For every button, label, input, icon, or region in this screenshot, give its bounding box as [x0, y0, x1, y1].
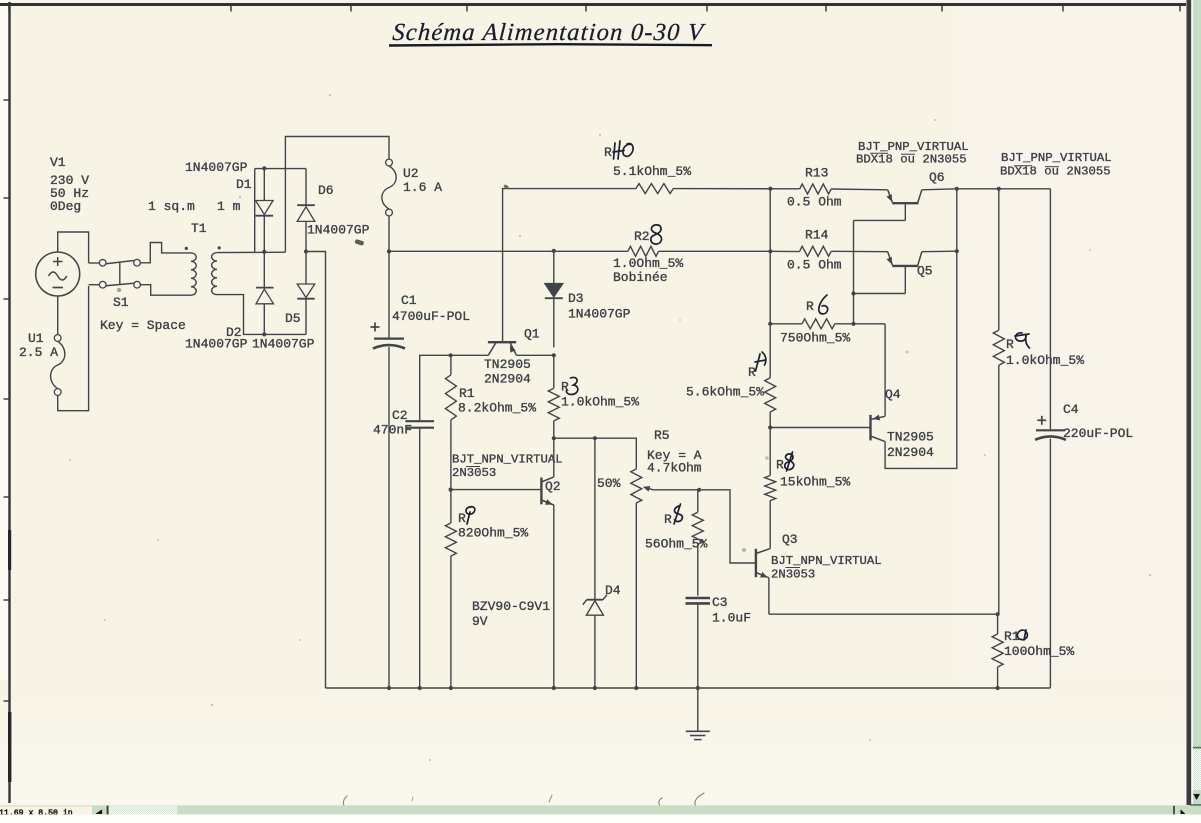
scrollbar corner dark line — [1190, 804, 1201, 805]
svg-text:1N4007GP: 1N4007GP — [307, 223, 370, 238]
diode D2 — [256, 287, 274, 289]
AC source V1 — [36, 252, 80, 296]
svg-text:TN2905: TN2905 — [484, 357, 531, 372]
handwritten 0 on R10 — [1017, 630, 1027, 640]
node rail C1 — [387, 686, 391, 690]
svg-text:750Ohm_5%: 750Ohm_5% — [780, 331, 850, 346]
svg-text:U1: U1 — [28, 331, 44, 346]
handwritten mark on R8 — [785, 452, 794, 471]
wire secondary riser to diode top rail — [254, 169, 256, 253]
svg-text:1.0kOhm_5%: 1.0kOhm_5% — [1006, 353, 1084, 368]
svg-text:470nF: 470nF — [373, 423, 412, 438]
wire output rail to C4 — [1049, 189, 1051, 429]
svg-text:Q4: Q4 — [885, 387, 901, 402]
svg-text:R: R — [604, 145, 612, 160]
resistor R2 820Ohm — [450, 490, 452, 523]
resistor R1 8.2kOhm — [450, 355, 452, 375]
svg-text:D4: D4 — [605, 583, 621, 598]
right page edge dark strip — [1187, 0, 1192, 805]
svg-text:C2: C2 — [392, 408, 408, 423]
svg-text:820Ohm_5%: 820Ohm_5% — [458, 526, 528, 541]
svg-text:0Deg: 0Deg — [50, 199, 81, 214]
transistor Q4 TN2905 — [869, 415, 871, 441]
svg-text:2N3053: 2N3053 — [452, 466, 496, 480]
node rail D4 — [593, 686, 597, 690]
vertical scrollbar — [1193, 0, 1201, 747]
svg-text:R: R — [776, 458, 784, 473]
svg-text:BZV90-C9V1: BZV90-C9V1 — [472, 599, 550, 614]
svg-text:2N3053: 2N3053 — [771, 568, 815, 582]
node Q1 emitter D3 — [552, 353, 556, 357]
node R6 left — [768, 322, 772, 326]
scrollbar down arrow — [1194, 794, 1200, 799]
node bridge mid left — [262, 250, 266, 254]
svg-text:1 sq.m: 1 sq.m — [148, 199, 195, 214]
svg-text:R: R — [664, 512, 672, 527]
scrollbar left arrow — [96, 810, 102, 814]
svg-text:R13: R13 — [805, 166, 828, 181]
resistor R13 0.5 Ohm — [800, 184, 832, 194]
svg-text:100Ohm_5%: 100Ohm_5% — [1004, 644, 1074, 659]
node base link mid — [851, 291, 855, 295]
diode D5 — [305, 252, 307, 285]
svg-text:2N2904: 2N2904 — [887, 445, 934, 460]
svg-text:TN2905: TN2905 — [887, 430, 934, 445]
svg-text:1 m: 1 m — [217, 199, 241, 214]
svg-text:Q2: Q2 — [545, 479, 561, 494]
svg-text:C1: C1 — [401, 293, 417, 308]
handwritten mark on R2 — [466, 507, 475, 524]
diode D1 — [263, 168, 265, 200]
svg-text:50%: 50% — [597, 476, 621, 491]
node rail Q2 emitter — [552, 686, 556, 690]
node Q1 collector R1 — [449, 353, 453, 357]
node D6 D5 junction — [304, 249, 308, 253]
node output rail at R9 — [997, 187, 1001, 191]
wire Q4 collector to Q5 collector riser — [885, 189, 957, 469]
svg-text:V1: V1 — [50, 155, 66, 170]
wire S1 to T1 primary top — [140, 243, 186, 263]
svg-text:S1: S1 — [113, 295, 129, 310]
node rail R2 — [449, 686, 453, 690]
node rail B at D3 — [552, 249, 556, 253]
wire U2 to C1 and ground rail — [388, 216, 390, 338]
svg-text:R2: R2 — [634, 229, 650, 244]
svg-text:R: R — [748, 365, 756, 380]
node D4 top — [593, 436, 597, 440]
svg-text:1N4007GP: 1N4007GP — [568, 307, 631, 322]
scan dust specks — [239, 196, 241, 198]
wire Q5 Q6 base link — [853, 220, 855, 323]
fuse U2 — [386, 159, 393, 166]
node rail C3 — [696, 686, 700, 690]
transistor Q3 2N3053 — [755, 549, 757, 577]
main rail A with R10 — [503, 189, 636, 342]
node rail C2 — [418, 686, 422, 690]
left border frame line — [8, 2, 10, 803]
resistor R28 1.0 Ohm Bobinee — [628, 246, 659, 256]
wire T1 secondary top to bridge — [217, 251, 285, 253]
wire S1 to T1 primary bottom — [140, 285, 186, 296]
handwritten mark on R56 — [674, 504, 682, 524]
capacitor C1 — [374, 338, 404, 340]
svg-text:C4: C4 — [1063, 402, 1079, 417]
handwritten 9 on R9 — [1015, 333, 1030, 348]
svg-text:15kOhm_5%: 15kOhm_5% — [780, 475, 850, 490]
handwritten mark on R7 — [755, 352, 766, 371]
svg-text:Bobinée: Bobinée — [613, 270, 668, 285]
svg-text:1N4007GP: 1N4007GP — [185, 160, 248, 175]
svg-text:D3: D3 — [568, 291, 584, 306]
node rail B at U2 — [387, 249, 391, 253]
svg-text:5.6kOhm_5%: 5.6kOhm_5% — [686, 385, 764, 400]
svg-text:1N4007GP: 1N4007GP — [252, 337, 315, 352]
svg-text:Key = Space: Key = Space — [100, 318, 186, 333]
svg-text:1.0uF: 1.0uF — [712, 611, 751, 626]
wire D5 node to ground rail riser — [306, 252, 326, 689]
main rail B with R28 — [389, 250, 628, 252]
transistor Q1 TN2905 — [488, 341, 516, 343]
wire riser rail A to R6 — [769, 251, 771, 323]
potentiometer R5 4.7kOhm — [631, 469, 642, 503]
capacitor C2 470nF — [405, 420, 434, 422]
svg-text:Q5: Q5 — [917, 264, 933, 279]
white band below scrollbar — [0, 814, 1201, 823]
svg-text:9V: 9V — [472, 614, 488, 629]
ground rail bottom — [326, 687, 1051, 689]
zener diode D4 — [594, 438, 596, 599]
wire V1 bottom to U1 — [57, 296, 59, 335]
svg-text:0.5 Ohm: 0.5 Ohm — [787, 195, 842, 210]
resistor R9 1.0kOhm — [998, 189, 1000, 330]
handwritten 40 on R10 — [613, 141, 633, 159]
transformer T1 — [187, 253, 197, 295]
diode D3 — [553, 251, 555, 284]
node bridge top — [262, 166, 266, 170]
node Q5 collector riser — [955, 249, 959, 253]
resistor R8 15kOhm — [769, 501, 771, 549]
wire wiper node to Q3 base — [699, 490, 756, 563]
ground symbol — [697, 688, 699, 731]
wiper arrow of R5 — [645, 487, 654, 490]
capacitor C4 220uF-POL — [1036, 429, 1065, 431]
svg-text:4.7kOhm: 4.7kOhm — [647, 461, 702, 476]
resistor R3 1.0kOhm — [553, 355, 555, 388]
svg-text:Q3: Q3 — [782, 532, 798, 547]
capacitor C3 1.0uF — [686, 597, 711, 600]
svg-text:8.2kOhm_5%: 8.2kOhm_5% — [458, 401, 536, 416]
svg-text:U2: U2 — [403, 166, 419, 181]
top border frame line — [0, 3, 1186, 6]
node rail B at riser — [768, 249, 772, 253]
node Q4 base R7 R8 — [768, 425, 772, 429]
svg-text:R14: R14 — [805, 228, 829, 243]
node R1 R2 Q2 base junction — [449, 488, 453, 492]
resistor R7 5.6kOhm — [769, 412, 771, 428]
diode D6 — [305, 169, 307, 206]
handwritten 8 on R28 — [651, 225, 662, 244]
svg-text:BJT_NPN_VIRTUAL: BJT_NPN_VIRTUAL — [452, 453, 563, 467]
resistor R10 100Ohm — [997, 614, 999, 634]
node wiper to R56 top — [697, 488, 701, 492]
faint pen marks bottom — [343, 796, 347, 808]
node Q2 collector R3 junction — [552, 436, 556, 440]
svg-text:D5: D5 — [285, 311, 301, 326]
wire bridge top rail — [255, 168, 306, 170]
svg-text:R: R — [561, 380, 569, 395]
resistor R14 0.5 Ohm — [800, 246, 832, 256]
handwritten 6 on R6 — [819, 295, 828, 314]
svg-text:Q1: Q1 — [524, 327, 540, 342]
transistor Q2 2N3053 — [540, 478, 542, 505]
svg-text:2N2904: 2N2904 — [484, 372, 531, 387]
svg-text:Q6: Q6 — [929, 170, 945, 185]
handwritten 3 on R3 — [566, 377, 577, 394]
node rail A at riser — [768, 187, 772, 191]
svg-text:56Ohm_5%: 56Ohm_5% — [645, 537, 708, 552]
svg-text:D6: D6 — [318, 183, 334, 198]
horizontal scrollbar strip — [0, 805, 1201, 806]
svg-text:R: R — [458, 511, 466, 526]
svg-text:R: R — [1006, 337, 1014, 352]
svg-text:0.5 Ohm: 0.5 Ohm — [787, 258, 842, 273]
wire T1 secondary bottom to bridge bottom — [217, 295, 306, 335]
node R6 right base drive — [851, 322, 855, 326]
svg-text:1.6 A: 1.6 A — [403, 180, 442, 195]
resistor R56 56Ohm — [697, 490, 699, 513]
svg-text:1.0Ohm_5%: 1.0Ohm_5% — [613, 256, 683, 271]
node output rail left — [955, 187, 959, 191]
svg-text:R5: R5 — [654, 428, 670, 443]
svg-text:R1: R1 — [459, 386, 475, 401]
svg-text:BJT_NPN_VIRTUAL: BJT_NPN_VIRTUAL — [771, 554, 882, 568]
svg-text:1N4007GP: 1N4007GP — [185, 337, 248, 352]
resistor R6 750Ohm — [770, 323, 802, 325]
node bridge bottom — [262, 332, 266, 336]
svg-text:2.5 A: 2.5 A — [19, 345, 58, 360]
svg-text:4700uF-POL: 4700uF-POL — [392, 309, 470, 324]
wire R3 node to R5 top — [554, 438, 637, 469]
svg-text:R: R — [806, 299, 814, 314]
node rail R10 — [996, 686, 1000, 690]
svg-text:T1: T1 — [191, 221, 207, 236]
svg-text:BJT_PNP_VIRTUAL: BJT_PNP_VIRTUAL — [1001, 151, 1112, 165]
wire U1 bottom to S1 lower pole — [58, 286, 89, 411]
svg-text:220uF-POL: 220uF-POL — [1063, 426, 1133, 441]
wire Q4 emitter riser — [884, 324, 886, 417]
svg-text:Schéma Alimentation 0-30 V: Schéma Alimentation 0-30 V — [392, 19, 707, 46]
svg-text:C3: C3 — [712, 595, 728, 610]
node Q3 emitter R9 R10 junction — [996, 612, 1000, 616]
switch S1 — [89, 262, 100, 264]
wire V1 top to S1 — [58, 232, 89, 263]
scrollbar right arrow — [1181, 810, 1185, 814]
fuse U1 — [54, 335, 61, 342]
wire Q1 collector to C2 — [420, 355, 451, 420]
wire bridge mid to fuse riser — [285, 137, 389, 253]
node rail R5 — [634, 686, 638, 690]
scan specks — [354, 239, 364, 246]
svg-text:5.1kOhm_5%: 5.1kOhm_5% — [613, 164, 691, 179]
output rail top — [957, 188, 1051, 190]
svg-text:D1: D1 — [236, 177, 252, 192]
resistor R10 5.1kOhm — [636, 184, 673, 194]
wire Q3 emitter to R10 node — [769, 613, 998, 615]
transistor Q6 BDX18 — [892, 202, 918, 204]
svg-text:1.0kOhm_5%: 1.0kOhm_5% — [561, 395, 639, 410]
transistor Q5 BDX18 — [892, 265, 918, 267]
